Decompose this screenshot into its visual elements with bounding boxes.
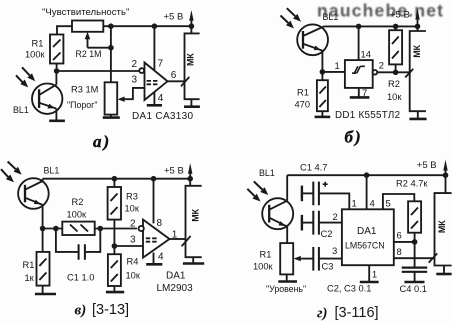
pin 2 bubble xyxy=(139,68,144,73)
svg-text:7: 7 xyxy=(158,59,164,70)
potentiometer R2 1M (horizontal) xyxy=(72,21,103,32)
svg-text:3: 3 xyxy=(130,235,136,246)
+5V rail xyxy=(324,25,418,27)
svg-text:BL1: BL1 xyxy=(13,105,29,115)
light arrow 2 xyxy=(281,16,289,23)
light arrow 1 xyxy=(8,162,16,170)
light arrow 1 xyxy=(287,8,295,16)
svg-text:C1 4.7: C1 4.7 xyxy=(300,162,327,172)
svg-text:1к: 1к xyxy=(25,273,35,283)
node emitter xyxy=(40,226,46,232)
svg-text:1: 1 xyxy=(335,61,340,72)
wire BL1 emitter down xyxy=(321,51,323,72)
svg-text:R4: R4 xyxy=(127,257,139,267)
svg-text:б): б) xyxy=(345,128,363,147)
phototransistor BL1 xyxy=(297,24,328,55)
svg-text:+5 В: +5 В xyxy=(390,10,410,21)
node rail-R3 xyxy=(112,176,118,182)
pin 6 output wire xyxy=(168,80,185,82)
MK connector bracket xyxy=(410,26,426,111)
node pin6/R2/C4 xyxy=(412,239,418,245)
capacitor C1 4.7 electrolytic xyxy=(301,186,303,202)
svg-text:2: 2 xyxy=(130,219,136,230)
MK connector bracket xyxy=(186,179,202,258)
svg-text:а): а) xyxy=(93,132,111,151)
wire R1 bottom to pin2 line xyxy=(56,64,58,72)
pin 7 wire and ground xyxy=(358,88,360,97)
svg-text:+5 В: +5 В xyxy=(164,12,184,23)
svg-text:МК: МК xyxy=(412,44,422,57)
svg-text:DA1: DA1 xyxy=(357,226,377,237)
resistor R1 100k xyxy=(50,35,63,64)
wire pin 3 xyxy=(114,245,143,247)
svg-text:3: 3 xyxy=(132,75,138,86)
svg-text:R2 4.7к: R2 4.7к xyxy=(396,179,428,189)
svg-text:10к: 10к xyxy=(125,204,140,214)
+5V arrow xyxy=(445,169,447,175)
capacitor C1 1.0 xyxy=(56,229,100,252)
node rail-pin8 xyxy=(151,176,157,182)
svg-text:BL1: BL1 xyxy=(259,168,275,178)
svg-text:+5 В: +5 В xyxy=(164,166,184,177)
light arrow 2 xyxy=(1,169,8,177)
resistor R2 4.7k xyxy=(408,201,421,232)
wire BL1 collector xyxy=(55,71,57,85)
MK connector bracket xyxy=(435,175,452,265)
wire R3 bottom to ground xyxy=(110,115,112,118)
light arrow 2 xyxy=(247,189,254,196)
svg-text:14: 14 xyxy=(361,50,372,61)
wire BL1 collector to rail xyxy=(286,175,288,201)
svg-text:1: 1 xyxy=(172,230,178,241)
svg-text:МК: МК xyxy=(437,220,447,233)
svg-text:100к: 100к xyxy=(25,50,46,60)
svg-text:4: 4 xyxy=(158,252,164,263)
pin 7 wire xyxy=(153,26,155,71)
svg-text:R3: R3 xyxy=(126,192,138,202)
node C1 right xyxy=(98,226,104,232)
+5V arrow xyxy=(189,173,191,179)
svg-text:R2: R2 xyxy=(72,197,84,207)
svg-text:1: 1 xyxy=(372,270,377,281)
svg-text:"Уровень": "Уровень" xyxy=(266,284,306,294)
node rail-pin7 junction xyxy=(152,23,158,29)
pin 4 wire and ground xyxy=(153,253,155,264)
+5V rail xyxy=(43,178,191,180)
MK ground stub xyxy=(190,99,192,106)
svg-text:R2 1M: R2 1M xyxy=(76,49,102,59)
svg-text:в): в) xyxy=(75,303,87,319)
wire BL1 collector to rail xyxy=(42,179,44,181)
svg-text:8: 8 xyxy=(157,218,163,229)
wire signal node line xyxy=(43,228,137,230)
svg-text:R1: R1 xyxy=(297,88,309,98)
node R2 bottom xyxy=(393,70,399,76)
svg-text:4: 4 xyxy=(370,199,375,210)
svg-text:C2, C3 0.1: C2, C3 0.1 xyxy=(327,284,371,294)
svg-text:100к: 100к xyxy=(67,209,88,219)
svg-text:DA1: DA1 xyxy=(166,270,186,281)
wire wiper to vertical xyxy=(88,47,111,49)
svg-text:2: 2 xyxy=(333,212,338,223)
resistor R3 10k xyxy=(108,187,121,220)
node R1/BL1/pin2 xyxy=(54,68,60,74)
svg-text:R3 1M: R3 1M xyxy=(71,85,98,95)
resistor R2 10k xyxy=(389,30,402,64)
node rail-pin14 xyxy=(356,24,362,30)
svg-text:[3-116]: [3-116] xyxy=(335,305,379,321)
svg-text:6: 6 xyxy=(397,231,402,242)
potentiometer R3 1M "Порог" xyxy=(105,82,118,114)
+5V arrow xyxy=(417,19,419,27)
resistor R1 1k xyxy=(37,252,50,286)
node rail-MK xyxy=(415,24,421,30)
MK connector bracket xyxy=(185,26,200,99)
pin 1 bottom wire and ground xyxy=(368,265,370,281)
pin 1 output wire xyxy=(170,238,186,240)
node rail-R2 xyxy=(393,24,399,30)
svg-text:LM567CN: LM567CN xyxy=(345,241,385,251)
light arrow 1 xyxy=(22,67,30,75)
svg-text:DA1 CA3130: DA1 CA3130 xyxy=(132,111,194,122)
svg-text:5: 5 xyxy=(386,199,391,210)
svg-text:МК: МК xyxy=(185,53,195,66)
MK output slash xyxy=(429,253,438,262)
svg-text:R1: R1 xyxy=(32,39,44,49)
potentiometer R1 100k xyxy=(280,243,293,274)
node rail-R2 junction xyxy=(108,23,114,29)
svg-text:10к: 10к xyxy=(387,92,402,102)
pin 2 bubble xyxy=(373,70,378,75)
ground R1 xyxy=(35,293,56,296)
svg-text:г): г) xyxy=(317,306,328,322)
node emitter/R1/pin1 xyxy=(320,69,326,75)
MK output slash xyxy=(405,69,413,78)
wire BL1 emitter down xyxy=(42,205,44,229)
hysteresis symbol xyxy=(352,66,365,73)
wire pot left lead to R1 top xyxy=(57,26,72,34)
+5V arrow xyxy=(190,20,192,27)
svg-text:[3-13]: [3-13] xyxy=(92,302,129,318)
pin 5 wire xyxy=(383,194,414,209)
node C1 left xyxy=(53,226,59,232)
svg-text:8: 8 xyxy=(397,247,402,258)
pin 8 wire xyxy=(153,179,155,224)
svg-text:470: 470 xyxy=(295,100,311,110)
pin 4 wire xyxy=(366,175,368,209)
phototransistor BL1 xyxy=(32,84,62,114)
MK output slash xyxy=(181,77,189,86)
svg-text:"Порог": "Порог" xyxy=(67,100,97,110)
svg-text:BL1: BL1 xyxy=(323,12,339,22)
node rail-MK xyxy=(187,176,193,182)
ground R3 xyxy=(103,116,120,119)
wire pin 2 input xyxy=(57,70,140,72)
ground R4 xyxy=(106,291,124,294)
MK ground stub xyxy=(417,111,419,118)
svg-text:МК: МК xyxy=(191,208,201,221)
IC DD1 K555TL2 box xyxy=(345,60,373,88)
svg-text:"Чувствительность": "Чувствительность" xyxy=(42,7,129,18)
svg-text:C4 0.1: C4 0.1 xyxy=(400,284,427,294)
light arrow 1 xyxy=(254,181,263,189)
svg-text:100к: 100к xyxy=(253,262,274,272)
wire node down to C4 xyxy=(414,242,416,268)
svg-text:4: 4 xyxy=(158,93,164,104)
svg-text:LM2903: LM2903 xyxy=(157,283,194,294)
ground R1 xyxy=(315,116,331,119)
op-amp DA1 CA3130 xyxy=(145,63,168,101)
comparator DA1 LM2903 xyxy=(143,220,170,258)
node rail-MK junction xyxy=(189,23,195,29)
svg-text:6: 6 xyxy=(171,70,177,81)
svg-text:1: 1 xyxy=(352,199,357,210)
IC DA1 LM567CN box xyxy=(342,209,394,265)
R2 wiper arrow xyxy=(87,38,89,48)
node wiper junction xyxy=(108,45,114,51)
phototransistor BL1 xyxy=(262,198,293,229)
capacitor C4 0.1 xyxy=(402,268,428,272)
capacitor C3 xyxy=(294,256,301,261)
svg-text:R2: R2 xyxy=(388,79,400,89)
svg-text:C3: C3 xyxy=(322,262,334,272)
svg-text:10к: 10к xyxy=(126,271,141,281)
pin 2 bubble xyxy=(139,226,144,231)
pin 4 wire and ground xyxy=(153,92,155,105)
svg-text:BL1: BL1 xyxy=(44,166,60,176)
light arrow 2 xyxy=(16,75,23,82)
node R3/R4/pin3 xyxy=(112,243,118,249)
node rail-MK xyxy=(443,172,449,178)
MK ground stub xyxy=(443,266,445,274)
svg-text:DD1 К555ТЛ2: DD1 К555ТЛ2 xyxy=(335,110,400,121)
wire R3 bottom crossing to pin3 node xyxy=(113,220,115,246)
resistor R2 100k (horizontal) xyxy=(62,222,94,235)
pin 6 wire xyxy=(394,241,415,243)
ground BL1 emitter xyxy=(49,120,65,123)
MK ground stub xyxy=(192,257,194,263)
svg-text:+5 В: +5 В xyxy=(417,160,437,171)
svg-text:R1: R1 xyxy=(260,250,272,260)
svg-text:3: 3 xyxy=(332,246,337,257)
pin 8 output wire xyxy=(394,257,435,259)
wire pot right lead / +5V rail xyxy=(103,25,191,27)
wire BL1 emitter to ground xyxy=(55,109,57,121)
ground C4 xyxy=(404,281,424,284)
resistor R4 10k xyxy=(108,254,121,286)
resistor R1 470 xyxy=(317,80,328,111)
wire vertical rail to R3 xyxy=(110,26,112,82)
wire pin 1 input xyxy=(322,71,345,73)
MK output slash xyxy=(182,236,191,246)
+5V rail xyxy=(287,174,445,176)
svg-text:C2: C2 xyxy=(321,229,333,239)
wire pin 2 output xyxy=(377,71,409,73)
wire pin 14 xyxy=(358,26,360,60)
svg-text:7: 7 xyxy=(362,88,367,99)
ground R1 xyxy=(278,280,297,283)
svg-text:R1: R1 xyxy=(23,260,35,270)
svg-text:C1 1.0: C1 1.0 xyxy=(67,273,94,283)
R3 wiper arrow and wire to pin 3 xyxy=(118,97,125,102)
phototransistor BL1 xyxy=(18,178,49,209)
wire BL1 emitter down xyxy=(286,227,288,244)
svg-text:2: 2 xyxy=(132,59,138,70)
capacitor C2 xyxy=(301,215,303,231)
node rail-pin4 xyxy=(364,172,370,178)
svg-text:2: 2 xyxy=(379,61,384,72)
